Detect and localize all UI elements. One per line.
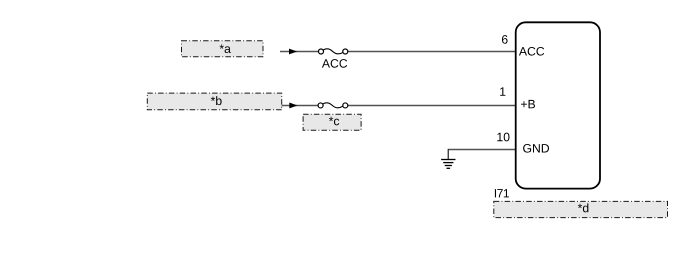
wire from *a to fuse ACC: [280, 51, 319, 53]
arrow on ACC wire: [289, 49, 297, 55]
pin label ACC: [519, 47, 544, 56]
fuse *c: [318, 103, 348, 108]
wire from fuse *c to pin 1: [348, 104, 516, 106]
node *a (source label box): [182, 41, 264, 57]
pin label +B: [521, 100, 535, 108]
fuse ACC: [319, 49, 348, 54]
node *b (source label box): [147, 93, 281, 110]
component I71 (connector body): [516, 22, 600, 188]
arrow on +B wire: [289, 103, 297, 109]
reference designator I71: [495, 189, 509, 197]
pin number 10: [497, 133, 509, 142]
wire from pin 10 to ground: [448, 149, 516, 151]
pin number 6: [502, 35, 508, 44]
node *d (component label box): [494, 201, 668, 217]
pin number 1: [500, 87, 505, 95]
ground: [441, 160, 455, 169]
pin label GND: [523, 144, 549, 153]
wire from fuse ACC to pin 6: [348, 51, 516, 53]
value label ACC (fuse name): [322, 59, 347, 68]
wire from *b to fuse *c: [282, 104, 318, 106]
node *c (fuse label box): [303, 114, 361, 130]
